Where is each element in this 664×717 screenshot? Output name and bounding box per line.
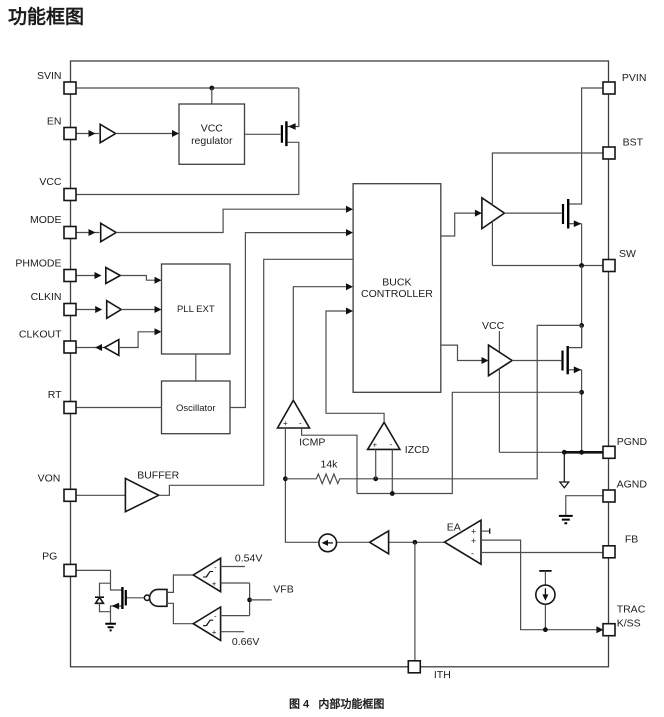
svg-text:CLKIN: CLKIN xyxy=(31,291,62,303)
svg-text:FB: FB xyxy=(625,534,638,546)
wire low sense line to Q3 source tap xyxy=(357,392,582,493)
svg-text:EN: EN xyxy=(47,116,62,128)
svg-text:VFB: VFB xyxy=(273,584,293,596)
wire Q2 drain to PVIN rail xyxy=(569,88,603,204)
pin TRACK/SS xyxy=(603,624,615,636)
wire PLL EXT to Oscillator xyxy=(195,354,197,381)
svg-text:RT: RT xyxy=(48,389,62,401)
transistor Q2 high-side FET gate bar xyxy=(562,204,564,224)
wire EA minus input to FB pin xyxy=(481,552,603,554)
svg-text:-: - xyxy=(214,612,217,621)
wire SW node xyxy=(581,224,583,266)
node IZCD plus / 14k xyxy=(373,476,378,481)
pin ITH xyxy=(408,661,420,673)
wire VON buffer output to BUCK xyxy=(159,259,353,495)
wire VFB stub xyxy=(250,599,272,601)
transistor Q1 channel bar xyxy=(285,121,287,146)
wire SW pin line xyxy=(492,265,603,267)
hysteresis glyph upper xyxy=(203,572,213,578)
wire CLKOUT pin from buffer xyxy=(76,347,105,349)
pin SW xyxy=(603,260,615,272)
transistor Q4 gate bar xyxy=(125,590,127,605)
wire Q3 source xyxy=(569,369,582,371)
wire CLKIN pin to buffer xyxy=(76,309,97,311)
svg-text:AGND: AGND xyxy=(617,479,648,491)
svg-text:PGND: PGND xyxy=(617,436,648,448)
wire gm buffer to current source xyxy=(337,541,370,543)
wire ITH node down to ITH pin xyxy=(414,542,416,661)
comparator PG lower (0.66V) xyxy=(193,607,220,641)
wire NAND top input from comparator xyxy=(167,575,193,592)
svg-text:regulator: regulator xyxy=(191,135,233,147)
wire MODE pin to buffer xyxy=(76,232,100,234)
svg-text:0.66V: 0.66V xyxy=(232,636,259,648)
wire BUCK to low-side driver xyxy=(441,345,483,360)
transistor Q3 low-side FET gate bar xyxy=(561,351,563,371)
buffer U5 (CLKOUT, points left) xyxy=(105,340,119,356)
pin SVIN xyxy=(64,82,76,94)
wire IZCD plus input xyxy=(375,449,377,478)
svg-text:SVIN: SVIN xyxy=(37,70,62,82)
diode zener clamp xyxy=(100,583,111,596)
wire driver bottom to PGND xyxy=(498,368,500,452)
node VFB xyxy=(247,598,252,603)
svg-text:PHMODE: PHMODE xyxy=(15,257,61,269)
wire SVIN rail xyxy=(76,87,299,89)
op-amp VON buffer xyxy=(125,478,158,511)
pin EN xyxy=(64,128,76,140)
transistor Q1 pass FET gate bar xyxy=(281,125,283,143)
outer border frame of IC xyxy=(71,61,609,667)
svg-text:MODE: MODE xyxy=(30,214,62,226)
wire SVIN to VCC regulator top xyxy=(211,88,213,104)
comparator ICMP xyxy=(278,400,310,428)
svg-text:ICMP: ICMP xyxy=(299,437,325,449)
svg-text:CONTROLLER: CONTROLLER xyxy=(361,288,433,300)
pin FB xyxy=(603,546,615,558)
resistor 14k xyxy=(285,474,375,484)
svg-text:TRAC: TRAC xyxy=(617,604,646,616)
wire EN pin to buffer xyxy=(76,133,99,135)
pin PGND xyxy=(603,446,615,458)
ground power-ground open arrow xyxy=(563,452,565,482)
svg-text:PG: PG xyxy=(42,551,57,563)
op-amp EA error amplifier xyxy=(445,520,482,564)
svg-text:CLKOUT: CLKOUT xyxy=(19,329,62,341)
wire 0.66V ref stub xyxy=(221,631,245,633)
wire IZCD minus input xyxy=(391,449,393,493)
wire upper comp plus to VFB xyxy=(221,582,250,584)
node sense tap on SW leg xyxy=(579,323,584,328)
current source I1 xyxy=(319,534,337,552)
wire Q4 source to ground xyxy=(111,606,122,623)
svg-text:IZCD: IZCD xyxy=(405,444,430,456)
svg-text:-: - xyxy=(214,563,217,572)
svg-text:BST: BST xyxy=(623,136,644,148)
ground earth symbol AGND xyxy=(559,516,573,523)
buffer U2 (MODE) xyxy=(101,223,116,241)
wire driver to low FET gate xyxy=(512,360,561,362)
node SW junction xyxy=(579,263,584,268)
svg-text:Oscillator: Oscillator xyxy=(176,403,216,414)
svg-text:+: + xyxy=(212,580,217,589)
current source I2 xyxy=(536,585,555,604)
transistor Q4 PG FET channel bar xyxy=(121,587,123,609)
svg-text:+: + xyxy=(212,628,217,637)
svg-text:+: + xyxy=(373,441,378,450)
pin PHMODE xyxy=(64,270,76,282)
wire current source I2 to TRACK/SS line xyxy=(544,604,546,629)
wire PG pin to open-drain FET xyxy=(76,570,121,590)
wire ICMP plus input down to current node xyxy=(285,428,318,542)
pin CLKIN xyxy=(64,304,76,316)
wire Q3 source down to PGND line xyxy=(581,370,583,453)
node IZCD minus junction xyxy=(390,491,395,496)
node ITH junction xyxy=(413,540,418,545)
block PLL EXT xyxy=(162,264,231,354)
svg-text:VCC: VCC xyxy=(39,176,62,188)
wire MODE buffer to BUCK CONTROLLER xyxy=(116,209,347,232)
svg-text:BUFFER: BUFFER xyxy=(137,470,179,482)
svg-text:K/SS: K/SS xyxy=(617,618,641,630)
wire driver to high FET gate xyxy=(504,212,561,214)
wire PGND line xyxy=(499,451,564,453)
pin MODE xyxy=(64,227,76,239)
pin PG xyxy=(64,564,76,576)
wire driver bottom to SW xyxy=(491,221,493,265)
wire EA output line to ITH node xyxy=(389,541,445,543)
wire PHMODE buffer to PLL EXT xyxy=(120,276,155,281)
block BUCK CONTROLLER xyxy=(353,184,441,393)
block Oscillator xyxy=(162,381,231,434)
svg-text:14k: 14k xyxy=(321,458,339,470)
wire BUCK to high-side driver xyxy=(441,213,476,236)
node PGND junctions xyxy=(562,450,567,455)
pin RT xyxy=(64,402,76,414)
node SVIN/Vreg junction xyxy=(209,86,214,91)
wire ICMP minus input to low sense line xyxy=(302,428,357,494)
wire 0.54V ref stub xyxy=(221,566,245,568)
buffer U1 (EN) xyxy=(100,124,115,142)
buffer U4 (CLKIN) xyxy=(107,301,122,319)
wire Q1 source to VCC pin xyxy=(76,142,299,194)
svg-text:功能框图: 功能框图 xyxy=(8,5,84,28)
wire EA ref input stub xyxy=(481,530,490,532)
comparator PG upper (0.54V) xyxy=(193,558,220,592)
wire CLKIN buffer to PLL EXT xyxy=(121,309,155,311)
svg-text:PVIN: PVIN xyxy=(622,72,647,84)
svg-text:SW: SW xyxy=(619,248,636,260)
wire lower comp minus to VFB xyxy=(221,615,250,617)
wire supply to current source I2 xyxy=(544,571,546,585)
pin CLKOUT xyxy=(64,341,76,353)
transistor Q2 channel bar xyxy=(567,199,569,229)
wire CLKOUT buffer input from PLL EXT xyxy=(119,332,156,348)
wire EA plus input to TRACK/SS xyxy=(481,540,598,630)
op-amp low-side gate driver xyxy=(489,345,513,376)
wire VCC regulator to pass FET gate xyxy=(245,133,281,135)
wire BST pin to driver top xyxy=(492,153,603,205)
svg-text:+: + xyxy=(471,527,476,537)
wire Q3 drain to SW leg xyxy=(569,325,582,347)
pin BST xyxy=(603,147,615,159)
wire Q2 source to SW xyxy=(569,223,581,225)
comparator IZCD xyxy=(368,422,400,449)
svg-text:图 4 内部功能框图: 图 4 内部功能框图 xyxy=(289,697,384,711)
buffer gm stage (points left) xyxy=(370,531,389,554)
wire Oscillator to BUCK CONTROLLER xyxy=(230,233,347,408)
wire EN buffer to VCC regulator xyxy=(116,133,173,135)
svg-text:PLL EXT: PLL EXT xyxy=(177,304,215,315)
pin VON xyxy=(64,489,76,501)
svg-text:+: + xyxy=(283,419,288,428)
svg-text:0.54V: 0.54V xyxy=(235,552,262,564)
wire ICMP output to BUCK xyxy=(293,287,347,401)
svg-text:-: - xyxy=(471,549,474,559)
wire VCC label to driver top xyxy=(498,331,500,352)
wire VFB vertical xyxy=(249,583,251,616)
svg-text:VON: VON xyxy=(38,472,61,484)
wire AGND pin to earth ground xyxy=(566,496,603,516)
wire PHMODE pin to buffer xyxy=(76,275,96,277)
wire Q1 drain lead xyxy=(288,88,299,127)
pin PVIN xyxy=(603,82,615,94)
node ICMP plus / 14k xyxy=(283,476,288,481)
wire NAND output to Q4 gate xyxy=(127,597,144,599)
wire SW down to low FET drain xyxy=(581,266,583,348)
svg-text:-: - xyxy=(390,440,393,449)
svg-text:+: + xyxy=(471,536,476,546)
hysteresis glyph lower xyxy=(203,620,213,626)
wire RT pin to Oscillator xyxy=(76,407,162,409)
node sense tap low FET source xyxy=(579,390,584,395)
svg-text:-: - xyxy=(299,419,302,428)
op-amp high-side gate driver xyxy=(482,198,505,229)
svg-text:VCC: VCC xyxy=(482,320,505,332)
transistor Q3 channel bar xyxy=(567,346,569,374)
wire PGND thick segment to pin xyxy=(564,451,603,454)
buffer U3 (PHMODE) xyxy=(106,268,121,284)
pin VCC xyxy=(64,189,76,201)
ground earth symbol PG xyxy=(105,624,116,631)
block VCC regulator xyxy=(179,104,245,164)
node TRACK/SS junction xyxy=(543,627,548,632)
supply bar above current source I2 xyxy=(539,570,551,572)
wire 14k line to SW sense tap xyxy=(376,325,582,478)
wire NAND bottom input from comparator xyxy=(167,603,193,623)
svg-text:ITH: ITH xyxy=(434,669,451,681)
gate NAND (mirrored, bubble left) xyxy=(144,595,149,600)
svg-text:EA: EA xyxy=(447,521,461,533)
pin AGND xyxy=(603,490,615,502)
svg-text:VCC: VCC xyxy=(201,123,224,135)
wire IZCD output to BUCK xyxy=(326,311,384,422)
wire VON pin to buffer xyxy=(76,494,125,496)
